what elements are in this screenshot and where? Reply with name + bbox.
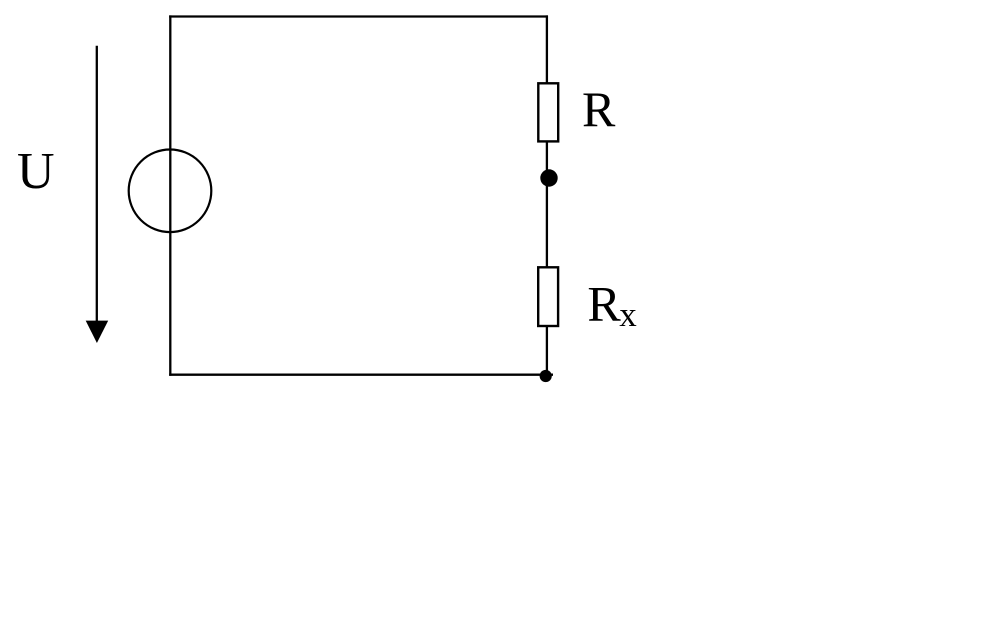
svg-text:R: R	[582, 81, 616, 137]
svg-text:Rx: Rx	[587, 275, 637, 334]
node dot (junction between R and Rx)	[540, 169, 557, 186]
bottom node dot	[540, 370, 552, 382]
resistor R (body)	[538, 83, 558, 141]
arrow for voltage U: head	[86, 321, 109, 343]
svg-text:U: U	[17, 143, 55, 200]
voltage source U (circle)	[129, 150, 212, 233]
wire: right vertical, top segment into resistor R	[546, 15, 548, 83]
wire: top horizontal from left branch to right branch	[169, 15, 548, 17]
wire: left vertical branch	[169, 15, 171, 375]
arrow for voltage U: shaft	[96, 46, 98, 322]
wire: right vertical, Rx to bottom node	[546, 325, 548, 375]
wire: right vertical between R and Rx through node	[546, 141, 548, 267]
wire: bottom horizontal from left branch past bottom node	[169, 374, 553, 376]
resistor Rx (body)	[538, 267, 558, 326]
